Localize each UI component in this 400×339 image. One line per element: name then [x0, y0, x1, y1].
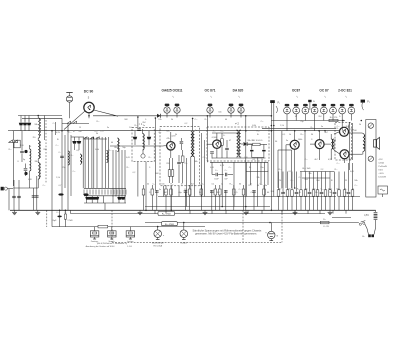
label v13: [257, 134, 260, 136]
label w26: [220, 131, 223, 133]
wire mid rail r: [300, 171, 334, 173]
wire rail TL: [18, 115, 62, 117]
label ug: [323, 226, 329, 228]
svg-text:0,1: 0,1: [253, 159, 257, 161]
label tube3: [292, 89, 301, 93]
svg-text:Klirrf.: Klirrf.: [379, 170, 384, 172]
svg-text:7k5: 7k5: [270, 191, 273, 193]
label v12: [247, 140, 251, 142]
label z28: [350, 171, 354, 173]
svg-text:4,5V: 4,5V: [379, 159, 384, 161]
svg-text:C: C: [24, 120, 26, 122]
tube top view V2: [174, 104, 180, 118]
label z57: [149, 157, 152, 159]
wire tick2: [189, 210, 191, 213]
svg-text:0,1: 0,1: [77, 150, 81, 152]
coil L1c: [38, 159, 40, 188]
label z29: [355, 185, 358, 187]
label z12: [159, 189, 161, 191]
label z19: [229, 167, 232, 169]
wire col 122: [121, 150, 123, 197]
svg-text:C₂₂: C₂₂: [321, 189, 324, 191]
jack J3: [368, 156, 373, 161]
trimmer CT0: [85, 197, 89, 200]
cap C6b: [17, 196, 21, 197]
tube top view W8: [348, 104, 355, 121]
svg-text:Skalenlampe: Skalenlampe: [152, 243, 165, 245]
bandswitch S2: [84, 188, 126, 196]
wire gang 0: [82, 137, 84, 188]
svg-text:C₂₉: C₂₉: [225, 170, 228, 172]
wire gang 8: [108, 137, 110, 188]
wire af v1: [281, 131, 283, 188]
svg-text:C₂₄: C₂₄: [184, 163, 187, 165]
label w59: [265, 185, 267, 187]
svg-text:220: 220: [166, 163, 170, 165]
label w3: [171, 184, 174, 186]
label z49: [43, 185, 46, 187]
label w35: [321, 126, 323, 128]
svg-text:b.50mW: b.50mW: [379, 177, 387, 179]
wire comp rail: [158, 196, 336, 198]
label z36: [252, 125, 256, 127]
svg-text:120: 120: [244, 157, 247, 159]
svg-text:C₂₅: C₂₅: [261, 121, 264, 123]
svg-text:10n: 10n: [220, 131, 223, 133]
wire tick3: [211, 210, 213, 213]
varcap CV2: [77, 137, 81, 150]
label lp1b: [153, 245, 162, 248]
gang link dashed: [45, 120, 47, 183]
junction dot 15: [318, 130, 320, 132]
wire line 220: [145, 222, 359, 224]
svg-text:12k: 12k: [166, 131, 169, 133]
label w5: [190, 184, 194, 186]
label w46: [143, 125, 145, 127]
cap Cb2: [155, 190, 159, 210]
svg-text:C₋: C₋: [149, 167, 151, 169]
label w45: [135, 125, 138, 127]
svg-text:6,8k: 6,8k: [95, 149, 99, 151]
svg-text:<10%: <10%: [379, 172, 384, 175]
label w43: [114, 147, 118, 149]
wire top rail mid2: [161, 115, 272, 117]
cap Cb14: [252, 190, 256, 210]
svg-text:47k: 47k: [166, 138, 170, 140]
wire gangf 5: [118, 196, 120, 203]
svg-text:4k7: 4k7: [324, 132, 328, 134]
junction dot 21: [171, 210, 173, 212]
wire gang 3: [91, 137, 93, 188]
svg-text:a: a: [163, 235, 165, 237]
junction dot 14: [304, 130, 306, 132]
label w19: [328, 189, 332, 191]
svg-text:C₁: C₁: [311, 139, 314, 141]
label v16: [298, 139, 303, 141]
label v51: [34, 124, 38, 126]
dashed chassis h: [112, 241, 282, 243]
label w57: [249, 185, 252, 187]
svg-text:70: 70: [279, 180, 282, 182]
label o1: [91, 240, 99, 243]
resistor Rr6: [188, 185, 191, 210]
label w47: [158, 119, 161, 121]
svg-text:90V: 90V: [155, 173, 159, 175]
svg-text:3n: 3n: [159, 189, 161, 191]
wire col 116: [115, 150, 117, 197]
wire gangf 2: [97, 196, 99, 203]
svg-text:4k7: 4k7: [314, 159, 318, 161]
wire left col a: [8, 189, 10, 211]
junction dot 6: [155, 117, 157, 119]
svg-text:100: 100: [353, 130, 357, 132]
svg-text:3n: 3n: [107, 127, 109, 129]
label w4: [181, 184, 184, 186]
wire belowC v8: [264, 162, 266, 196]
tube top view W2: [293, 104, 300, 121]
driver transformer TR3: [324, 134, 334, 160]
wire col 62: [61, 118, 63, 210]
resistor R6: [221, 133, 224, 158]
svg-text:¹₂: ¹₂: [296, 96, 298, 99]
svg-text:¹₂: ¹₂: [172, 96, 174, 99]
svg-text:47: 47: [295, 116, 298, 118]
svg-text:B₁: B₁: [362, 236, 364, 238]
junction dot 22: [51, 130, 53, 132]
junction dot 30: [245, 206, 247, 208]
svg-text:2,2: 2,2: [239, 157, 242, 159]
cap CA1: [137, 129, 141, 130]
label z6: [95, 149, 99, 151]
junction dot 7: [192, 118, 194, 120]
label v0: [68, 132, 71, 134]
resistor Rr13: [242, 185, 245, 210]
svg-text:C: C: [28, 120, 30, 122]
svg-text:R₄: R₄: [331, 180, 334, 182]
svg-text:R₁₉: R₁₉: [205, 119, 208, 121]
junction dot 19: [271, 210, 273, 212]
wire fe top: [62, 123, 89, 125]
label w8: [221, 184, 223, 186]
svg-text:40: 40: [225, 119, 227, 121]
svg-text:Lampe: Lampe: [181, 243, 188, 245]
wire gang 5: [96, 137, 98, 188]
trimmer CT2: [92, 197, 96, 200]
transistor T5: [310, 131, 324, 160]
label v46: [345, 192, 348, 194]
label z32: [311, 127, 314, 129]
label z5: [73, 171, 76, 173]
dashed chassis v2: [111, 210, 113, 242]
cap C6d: [35, 196, 39, 197]
svg-text:5: 5: [88, 96, 90, 100]
svg-text:0,5: 0,5: [235, 192, 239, 194]
resistor Rr12: [233, 185, 236, 210]
wire col 68: [67, 124, 69, 211]
wire det stem: [257, 158, 259, 163]
cap C6c: [32, 196, 36, 197]
dashed chassis v3: [242, 210, 244, 242]
dashed box D: [335, 123, 352, 161]
svg-text:Rₜ: Rₜ: [313, 101, 315, 103]
svg-text:1k: 1k: [359, 124, 362, 126]
svg-text:0,1: 0,1: [283, 134, 287, 136]
label v30: [316, 180, 320, 182]
svg-text:2n: 2n: [283, 192, 286, 194]
label z31: [337, 163, 340, 165]
cap C13: [262, 144, 265, 157]
cap Cb5: [184, 190, 188, 210]
tube top view W4: [311, 104, 318, 131]
coil L3a: [68, 151, 69, 165]
wire pwr 217: [332, 217, 351, 219]
svg-text:50: 50: [275, 141, 278, 143]
resistor Ropt: [98, 225, 108, 228]
wire l col c: [12, 131, 14, 140]
input box: [14, 140, 20, 148]
cap Cb8: [210, 190, 214, 210]
wire belowC v7: [260, 162, 262, 185]
jack frame: [366, 120, 376, 198]
label w48: [171, 119, 173, 121]
wire belowC v1: [211, 162, 213, 174]
label z33: [300, 121, 303, 123]
label v32: [345, 180, 348, 182]
wire t6 out: [349, 132, 363, 134]
ground G2: [138, 210, 143, 214]
label tube1: [205, 89, 216, 93]
wire l v55: [55, 122, 57, 135]
label w55: [253, 159, 257, 161]
label v19: [337, 128, 340, 130]
svg-text:R₁: R₁: [64, 212, 66, 214]
label lp2: [181, 243, 188, 245]
trimmer C2: [23, 116, 27, 131]
label z2: [71, 155, 74, 157]
wire tick7: [281, 210, 283, 213]
label w62: [348, 159, 352, 161]
label w42: [101, 131, 104, 133]
junction dot 11: [245, 130, 247, 132]
label z10: [149, 167, 151, 169]
label w21: [345, 189, 348, 191]
wire boxa stub: [137, 117, 139, 128]
wire col 65: [64, 135, 66, 188]
svg-text:0,45: 0,45: [28, 179, 32, 181]
wire input box stub: [8, 130, 12, 132]
svg-text:7k5: 7k5: [32, 137, 35, 139]
svg-text:1,5k: 1,5k: [280, 125, 284, 127]
svg-text:5n: 5n: [265, 185, 267, 187]
svg-text:OC 871: OC 871: [205, 89, 216, 93]
junction dot 26: [157, 226, 159, 228]
cap C5: [24, 164, 28, 177]
label v24: [220, 165, 225, 167]
svg-text:30: 30: [311, 134, 314, 136]
wire gangf 6: [124, 196, 126, 203]
junction dot 27: [183, 222, 185, 224]
label v25: [249, 167, 252, 169]
svg-text:C₋: C₋: [145, 119, 147, 121]
label w18: [321, 189, 324, 191]
label w38: [353, 130, 357, 132]
cap Ch1: [212, 170, 224, 180]
wire det bot: [252, 157, 264, 159]
right text stack: [379, 159, 387, 179]
label tubepin5: [345, 96, 347, 99]
svg-text:0,05: 0,05: [350, 171, 354, 173]
label tube0: [162, 89, 183, 93]
label w27: [257, 131, 260, 133]
resistor R3: [168, 158, 171, 183]
resistor Rr9: [214, 185, 217, 210]
svg-text:R₁₁: R₁₁: [337, 128, 340, 130]
coil L4: [107, 151, 109, 163]
label tubepin2: [238, 96, 240, 99]
label z46: [32, 137, 35, 139]
svg-text:R₁₁ 17kΩ: R₁₁ 17kΩ: [162, 213, 171, 216]
junction dot 18: [361, 120, 363, 122]
svg-text:2,2: 2,2: [321, 169, 324, 171]
label w53: [318, 116, 322, 118]
svg-text:5k: 5k: [96, 133, 99, 135]
transistor T3: [207, 133, 221, 158]
cap Cc16: [347, 163, 351, 210]
svg-text:0,2: 0,2: [133, 172, 136, 174]
label z41: [124, 119, 128, 121]
svg-text:R₁₈: R₁₈: [239, 112, 242, 114]
label z15: [239, 189, 242, 191]
svg-text:0,35A: 0,35A: [379, 162, 385, 165]
label w32: [289, 134, 291, 136]
label z51: [17, 161, 18, 163]
label lp1: [152, 243, 165, 245]
svg-text:25p: 25p: [300, 121, 303, 123]
label o2: [109, 240, 116, 243]
resistor Rs17: [351, 163, 354, 210]
svg-text:6,8k: 6,8k: [252, 125, 256, 127]
label opt caption3: [86, 245, 116, 248]
resistor Rs8: [312, 172, 315, 211]
wire l col b: [44, 116, 46, 141]
svg-text:R₃: R₃: [249, 167, 252, 169]
option box O2: [108, 227, 117, 239]
label w7: [212, 184, 216, 186]
wire tick12: [345, 210, 347, 213]
svg-text:0,9V: 0,9V: [328, 159, 333, 161]
svg-text:C₂₆: C₂₆: [229, 167, 232, 169]
resistor Rg2: [162, 222, 178, 226]
label z1: [56, 145, 59, 147]
svg-text:18k: 18k: [34, 124, 38, 126]
label t1pin: [88, 96, 90, 100]
label w30: [261, 140, 263, 142]
wire col 352: [351, 123, 353, 160]
wire drv col: [304, 131, 306, 172]
wire belowC v6: [256, 162, 258, 206]
elytic E2: [83, 193, 88, 195]
IF transformer TR1: [191, 118, 195, 196]
label tubepin3: [296, 96, 298, 99]
label z30: [328, 159, 333, 161]
cap C8: [180, 138, 184, 150]
label z44: [79, 127, 81, 129]
coil L1b: [38, 138, 40, 159]
wire line 226: [52, 226, 205, 228]
svg-text:10n: 10n: [129, 127, 133, 129]
label tube5: [338, 89, 352, 93]
svg-text:C₉: C₉: [202, 184, 204, 186]
cap Cc13: [333, 172, 337, 211]
label w13: [278, 189, 282, 191]
tube top view W7: [339, 104, 346, 131]
label w6: [202, 184, 204, 186]
transistor T4: [286, 131, 299, 188]
trimmer P2: [361, 100, 370, 111]
svg-text:¹₂: ¹₂: [345, 96, 347, 99]
osc loop: [141, 150, 145, 158]
junction dot 2: [61, 130, 63, 132]
resistor Rr15: [263, 185, 266, 210]
label c1: [20, 120, 22, 122]
label z56: [239, 157, 242, 159]
resistor Rg3: [320, 219, 329, 224]
label z47: [20, 145, 23, 147]
label w34: [311, 134, 314, 136]
resistor Rf: [329, 117, 338, 122]
wire gangf 1: [91, 196, 93, 203]
dashed chassis v4: [281, 210, 283, 242]
label z45: [53, 123, 56, 125]
svg-text:C₁₃: C₁₃: [337, 163, 340, 165]
label w25: [213, 131, 216, 133]
svg-text:1k: 1k: [221, 184, 223, 186]
svg-text:100: 100: [348, 159, 352, 161]
wire af v3: [277, 150, 279, 188]
wire fe h137: [71, 136, 84, 138]
svg-text:C₂₂: C₂₂: [101, 131, 104, 133]
label v23: [184, 163, 187, 165]
junction dot 28: [269, 222, 271, 224]
wire gang 4: [93, 137, 95, 188]
svg-text:C₁₁: C₁₁: [260, 184, 263, 186]
label tubepin4: [324, 96, 326, 99]
label v6: [158, 132, 161, 134]
svg-text:47: 47: [181, 184, 184, 186]
svg-text:33k: 33k: [256, 177, 259, 179]
svg-text:OC 87: OC 87: [319, 89, 328, 93]
label v45: [328, 192, 332, 194]
label z55: [194, 161, 197, 163]
label w15: [297, 189, 299, 191]
battery plug B1: [367, 228, 376, 237]
label w61: [314, 159, 318, 161]
ground G6: [328, 210, 333, 214]
label z26: [321, 169, 324, 171]
svg-text:≠ 2: ≠ 2: [235, 122, 239, 126]
svg-text:gemessen. Mit 9V (zwei 4,5V Fl: gemessen. Mit 9V (zwei 4,5V Fla-Batterie…: [195, 231, 257, 235]
label z7: [111, 142, 113, 144]
diode D2: [241, 142, 252, 146]
svg-text:C₅: C₅: [223, 135, 226, 137]
cap Cc7: [308, 172, 312, 211]
label z39: [185, 123, 188, 125]
svg-text:C₉: C₉: [149, 192, 152, 194]
svg-text:3k3: 3k3: [304, 179, 308, 181]
svg-text:4,5V: 4,5V: [364, 215, 369, 217]
output transformer TR4: [363, 133, 365, 154]
wire gangf 0: [86, 196, 88, 203]
